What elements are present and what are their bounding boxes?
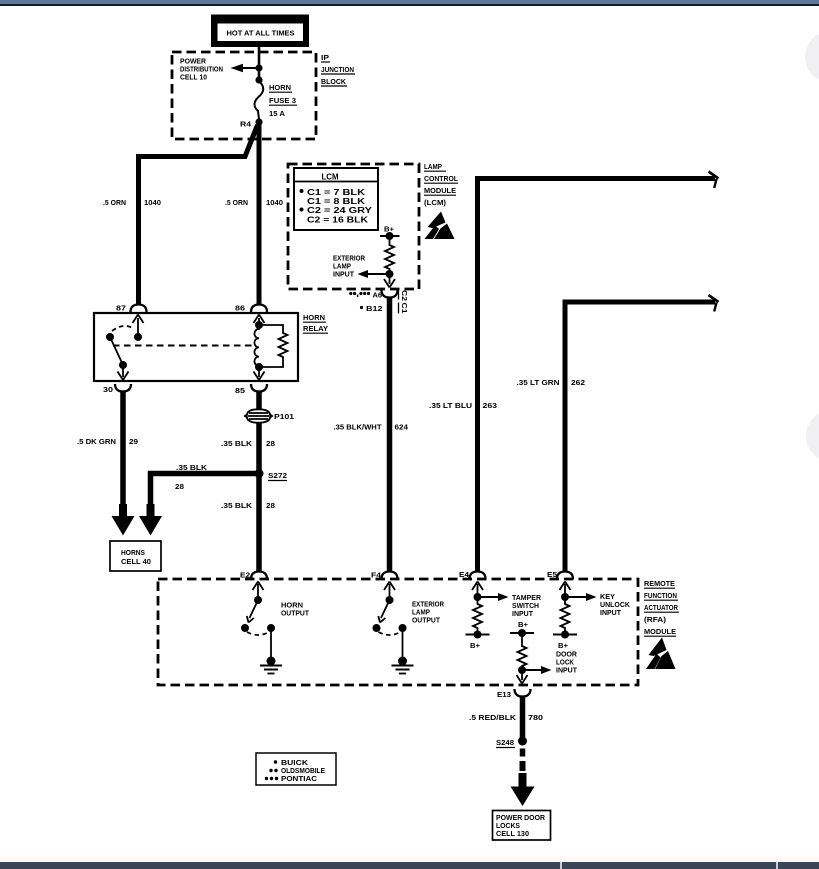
relay mechanical dashed link xyxy=(113,345,254,347)
svg-text:263: 263 xyxy=(483,401,498,410)
ESD symbol RFA xyxy=(646,638,676,670)
RFA dashed module box xyxy=(158,579,638,685)
svg-text:IP: IP xyxy=(321,53,329,62)
relay coil winding xyxy=(254,325,259,367)
svg-text:BLOCK: BLOCK xyxy=(321,77,347,86)
relay coil top node xyxy=(255,321,263,329)
faint watermark circle mid right xyxy=(806,410,819,462)
svg-text:28: 28 xyxy=(266,439,275,448)
ground (horn output) xyxy=(260,657,282,674)
wire E13 to S248 xyxy=(520,697,526,741)
fuse HORN FUSE 3 15A xyxy=(254,81,297,119)
wire R4 down to relay pin 86 xyxy=(257,122,262,304)
connector pin 85 cup xyxy=(251,384,267,392)
svg-text:.5 DK GRN: .5 DK GRN xyxy=(77,437,116,446)
legend box BUICK OLDSMOBILE PONTIAC xyxy=(256,753,336,785)
svg-text:LCM: LCM xyxy=(322,173,339,182)
node B+ (tamper) xyxy=(466,631,490,651)
IP junction block dashed box xyxy=(172,52,316,139)
svg-text:INPUT: INPUT xyxy=(333,270,355,279)
svg-text:LOCKS: LOCKS xyxy=(496,823,520,830)
svg-text:S248: S248 xyxy=(496,738,514,747)
arrow DOOR LOCK INPUT xyxy=(522,650,578,675)
svg-text:E13: E13 xyxy=(497,690,511,699)
svg-text:87: 87 xyxy=(116,304,126,313)
svg-text:C2: C2 xyxy=(400,290,409,301)
connector pin E4 cup xyxy=(470,572,486,580)
svg-text:S272: S272 xyxy=(268,471,287,480)
svg-text:1040: 1040 xyxy=(266,198,283,207)
RFA pin F4 internal arrow xyxy=(384,582,395,600)
relay switch contact node (87 side) xyxy=(134,333,142,341)
faint watermark circle upper right xyxy=(805,31,819,83)
horn output switch xyxy=(241,596,310,660)
svg-text:28: 28 xyxy=(175,482,184,491)
relay pin 85 internal arrow xyxy=(254,367,265,380)
connector pin E5 cup xyxy=(557,572,573,580)
svg-text:BUICK: BUICK xyxy=(281,760,308,767)
svg-text:780: 780 xyxy=(528,713,543,722)
svg-text:INPUT: INPUT xyxy=(556,666,578,675)
connector pin A6 cup xyxy=(382,290,398,298)
label .5 DK GRN 29 xyxy=(77,437,138,446)
svg-text:.5 ORN: .5 ORN xyxy=(225,198,248,207)
arrow to horns cell (right) xyxy=(139,504,162,536)
arrow TAMPER SWITCH INPUT xyxy=(478,593,542,618)
svg-text:HORN: HORN xyxy=(303,313,325,322)
svg-text:.5 RED/BLK: .5 RED/BLK xyxy=(469,713,517,722)
bottom bar separator 2 xyxy=(776,862,778,869)
node B+ (LCM) xyxy=(380,225,400,241)
wire RFA pin E5 feed (lt grn) xyxy=(565,295,719,571)
svg-text:INPUT: INPUT xyxy=(512,609,534,618)
faint band above bottom bar xyxy=(0,856,819,862)
svg-text:30: 30 xyxy=(103,385,113,394)
label .35 LT BLU 263 xyxy=(429,401,497,410)
label .35 BLK 28 (branch) xyxy=(175,463,208,491)
label .35 BLK 28 (lower) xyxy=(221,501,275,510)
wire A6 to RFA pin F4 xyxy=(387,298,393,573)
svg-text:(RFA): (RFA) xyxy=(644,615,667,624)
wire S272 branch to horns arrow (right) xyxy=(151,474,260,507)
label .5 ORN 1040 left xyxy=(103,198,161,207)
svg-text:MODULE: MODULE xyxy=(644,627,676,636)
connector pin 30 cup xyxy=(115,384,131,392)
label .35 BLK/WHT 624 xyxy=(334,423,410,432)
label LAMP CONTROL MODULE (LCM) xyxy=(424,162,459,207)
relay pin 30 internal arrow xyxy=(118,365,129,380)
label .5 ORN 1040 right xyxy=(225,198,283,207)
svg-text:P101: P101 xyxy=(274,412,294,421)
svg-text:C2 = 24 GRY: C2 = 24 GRY xyxy=(307,206,373,215)
splice S272 xyxy=(255,469,264,478)
resistor door lock xyxy=(518,633,527,670)
svg-text:MODULE: MODULE xyxy=(424,186,456,195)
svg-text:(LCM): (LCM) xyxy=(424,198,447,207)
wire HOT box to fuse feed xyxy=(258,47,261,81)
relay horn relay box xyxy=(94,313,298,381)
connector pin 87 cup xyxy=(131,305,147,313)
svg-text:INPUT: INPUT xyxy=(600,608,622,617)
label * B12 xyxy=(360,305,383,313)
wire dashed continuation to power door locks xyxy=(520,749,526,772)
svg-text:B+: B+ xyxy=(470,641,480,650)
svg-text:A6: A6 xyxy=(373,292,383,300)
svg-text:RELAY: RELAY xyxy=(303,324,328,333)
exterior lamp output switch xyxy=(373,596,445,660)
ground (exterior lamp output) xyxy=(392,657,414,674)
svg-text:C1 = 8 BLK: C1 = 8 BLK xyxy=(307,197,366,206)
arrow to POWER DISTRIBUTION CELL 10 xyxy=(180,57,259,82)
LCM dashed module box xyxy=(288,164,419,289)
label IP JUNCTION BLOCK xyxy=(321,53,355,86)
label **,*** A6 xyxy=(349,292,382,300)
svg-text:OLDSMOBILE: OLDSMOBILE xyxy=(281,768,325,775)
connector pin 86 cup xyxy=(251,305,267,313)
svg-text:JUNCTION: JUNCTION xyxy=(321,65,354,74)
svg-text:B12: B12 xyxy=(366,305,383,313)
svg-text:85: 85 xyxy=(235,386,245,395)
svg-text:624: 624 xyxy=(395,423,410,432)
svg-text:.35 LT BLU: .35 LT BLU xyxy=(429,401,472,410)
svg-text:CONTROL: CONTROL xyxy=(424,174,459,183)
svg-text:CELL 10: CELL 10 xyxy=(180,73,207,82)
svg-text:HORN: HORN xyxy=(269,83,291,92)
relay coil parallel resistor xyxy=(259,325,288,367)
label .35 LT GRN 262 xyxy=(517,378,586,387)
LCM pin A6 internal arrow xyxy=(384,274,395,288)
label REMOTE FUNCTION ACTUATOR (RFA) MODULE xyxy=(644,579,679,636)
relay coil bottom node xyxy=(255,363,263,371)
svg-text:FUNCTION: FUNCTION xyxy=(644,591,677,600)
RFA pin E13 internal arrow xyxy=(517,670,528,684)
arrow EXTERIOR LAMP INPUT xyxy=(333,254,390,279)
connector pin E13 cup xyxy=(515,689,531,697)
svg-text:CELL 40: CELL 40 xyxy=(121,558,151,566)
relay switch common node xyxy=(106,333,114,341)
label .35 BLK 28 (above S272) xyxy=(221,439,275,448)
label HORN RELAY xyxy=(303,313,328,333)
bottom status bar xyxy=(0,862,819,869)
wire pin 85 to P101 xyxy=(256,392,262,411)
bottom bar separator 1 xyxy=(560,862,562,869)
HOT AT ALL TIMES box xyxy=(211,15,309,48)
svg-text:FUSE 3: FUSE 3 xyxy=(269,96,296,105)
node B+ (key unlock) xyxy=(553,631,577,651)
RFA pin E2 internal arrow xyxy=(253,582,264,600)
splice S248 xyxy=(496,737,527,748)
POWER DOOR LOCKS CELL 130 box xyxy=(493,811,551,841)
node tamper switch input xyxy=(474,593,482,601)
relay pin 86 internal arrow xyxy=(254,315,265,326)
label C2 C1 rotated xyxy=(399,289,410,314)
svg-text:28: 28 xyxy=(266,501,275,510)
svg-text:PONTIAC: PONTIAC xyxy=(281,776,317,783)
svg-text:LAMP: LAMP xyxy=(424,162,442,171)
svg-text:29: 29 xyxy=(129,437,138,446)
wire pin 30 to horns arrow xyxy=(120,392,126,507)
svg-text:OUTPUT: OUTPUT xyxy=(412,616,441,625)
svg-text:OUTPUT: OUTPUT xyxy=(281,609,310,618)
svg-text:POWER DOOR: POWER DOOR xyxy=(496,815,545,822)
svg-text:15 A: 15 A xyxy=(269,109,286,118)
svg-text:HORNS: HORNS xyxy=(121,549,145,557)
svg-text:ACTUATOR: ACTUATOR xyxy=(644,603,679,612)
node power distribution tap xyxy=(255,64,262,71)
connector pin E2 cup xyxy=(251,572,267,580)
wire RFA pin E4 feed (lt blu) xyxy=(478,172,719,572)
resistor tamper pull-up xyxy=(473,597,482,634)
wire S272 to RFA pin E2 xyxy=(256,474,262,573)
connector P101 xyxy=(245,409,294,422)
svg-text:.35 LT GRN: .35 LT GRN xyxy=(517,378,560,387)
relay switch arm xyxy=(110,337,123,365)
svg-text:C1: C1 xyxy=(400,303,409,314)
node exterior lamp input xyxy=(386,270,394,278)
node B+ (door lock) xyxy=(510,620,534,637)
arrow to horns cell (left) xyxy=(112,504,135,536)
svg-text:REMOTE: REMOTE xyxy=(644,579,675,588)
svg-text:.35 BLK: .35 BLK xyxy=(176,463,208,472)
svg-text:.35 BLK: .35 BLK xyxy=(221,501,253,510)
node fuse top xyxy=(255,76,262,83)
LCM connector table xyxy=(294,168,378,230)
top toolbar blue bar xyxy=(0,0,819,5)
node door lock input xyxy=(518,666,526,674)
svg-text:CELL 130: CELL 130 xyxy=(496,831,529,838)
relay pin 87 internal arrow xyxy=(133,315,144,337)
svg-text:1040: 1040 xyxy=(144,198,161,207)
arrow to power door locks cell xyxy=(511,773,535,806)
svg-text:C2 = 16 BLK: C2 = 16 BLK xyxy=(307,216,368,225)
wire P101 to S272 xyxy=(256,423,262,473)
HORNS CELL 40 box xyxy=(110,541,161,571)
svg-text:C1 = 7 BLK: C1 = 7 BLK xyxy=(307,188,366,197)
svg-text:B+: B+ xyxy=(518,620,528,629)
svg-text:HOT AT ALL TIMES: HOT AT ALL TIMES xyxy=(227,29,295,38)
node key unlock input xyxy=(561,593,569,601)
svg-text:262: 262 xyxy=(571,378,585,387)
svg-text:.35 BLK/WHT: .35 BLK/WHT xyxy=(334,423,383,432)
arrow KEY UNLOCK INPUT xyxy=(565,592,631,617)
svg-text:R4: R4 xyxy=(240,120,252,129)
relay switch arm node xyxy=(119,361,127,369)
resistor LCM pull-up xyxy=(385,236,394,274)
wire branch diagonal to left feed xyxy=(139,125,258,304)
connector pin F4 cup xyxy=(382,572,398,580)
relay switch dashed throw arc xyxy=(112,326,134,331)
ESD symbol LCM xyxy=(425,212,455,240)
RFA pin E5 internal arrow xyxy=(560,582,571,598)
resistor key unlock pull-up xyxy=(561,597,570,634)
RFA pin E4 internal arrow xyxy=(472,582,483,598)
top toolbar dark underline xyxy=(0,4,819,6)
svg-text:.5 ORN: .5 ORN xyxy=(103,198,126,207)
svg-text:.35 BLK: .35 BLK xyxy=(221,439,253,448)
svg-text:86: 86 xyxy=(235,304,245,313)
node R4 xyxy=(255,118,262,125)
label .5 RED/BLK 780 xyxy=(469,713,543,722)
